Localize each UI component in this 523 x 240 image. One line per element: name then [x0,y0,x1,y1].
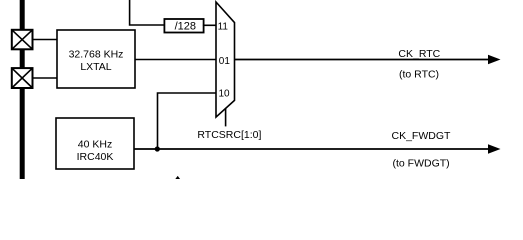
mux RTCSRC selector [216,2,235,117]
pad OSC32IN (X-box) [12,30,33,50]
svg-text:IRC40K: IRC40K [77,151,114,163]
svg-text:RTCSRC[1:0]: RTCSRC[1:0] [197,129,261,141]
wire junction up to mux input 10 [158,93,217,149]
chip boundary (thick vertical line) [20,0,25,179]
svg-text:CK_FWDGT: CK_FWDGT [392,130,452,142]
svg-text:10: 10 [219,89,231,100]
mux select stub wire [225,108,227,126]
svg-text:(to FWDGT): (to FWDGT) [393,158,450,170]
svg-text:32.768 KHz: 32.768 KHz [69,48,124,60]
oscillator IRC40K box [56,118,134,169]
svg-text:CK_RTC: CK_RTC [398,48,440,60]
oscillator LXTAL box [57,30,135,88]
arrowhead CK_RTC [488,55,501,64]
wire from OSC32OUT pad to LXTAL [33,77,58,79]
wire mux output to CK_RTC arrow [235,59,490,61]
wire LXTAL to mux input 01 [135,59,216,61]
svg-text:(to RTC): (to RTC) [399,69,439,81]
arrowhead CK_FWDGT [488,144,501,153]
svg-text:11: 11 [218,21,229,32]
svg-text:40 KHz: 40 KHz [78,138,112,150]
divider /128 box [164,19,203,33]
svg-text:01: 01 [219,56,231,67]
pad OSC32OUT (X-box) [12,68,33,88]
junction dot on IRC40K output [155,146,160,151]
wire from OSC32IN pad to LXTAL [33,39,58,41]
wire from top into /128 divider [130,0,165,25]
arrowhead fragment at bottom edge [175,176,180,179]
svg-text:/128: /128 [175,21,196,33]
wire /128 to mux input 11 [203,24,216,26]
wire IRC40K to CK_FWDGT arrow [134,148,490,150]
svg-text:LXTAL: LXTAL [80,61,111,73]
